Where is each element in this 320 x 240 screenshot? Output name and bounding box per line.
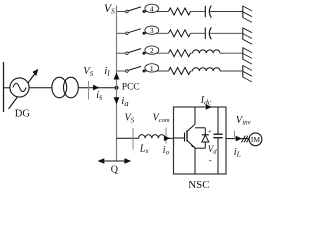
capacitor C4 bbox=[205, 6, 211, 18]
resistor R1 bbox=[169, 68, 191, 75]
switch S1 bbox=[126, 66, 146, 72]
svg-text:DG: DG bbox=[15, 109, 31, 120]
switch S4 bbox=[126, 7, 146, 13]
stiff source wall (feeder 3) bbox=[243, 28, 252, 45]
svg-text:Q: Q bbox=[111, 165, 119, 176]
measurement tick Vs bbox=[88, 81, 90, 100]
svg-text:is: is bbox=[96, 90, 102, 102]
measurement tick Vs (compensator) bbox=[132, 128, 134, 150]
inductor L2 bbox=[193, 50, 221, 53]
wire bbox=[191, 32, 206, 34]
measurement tick Vcom bbox=[165, 128, 167, 144]
arrow i_l (up) bbox=[114, 72, 120, 79]
wire (diode top jumper) bbox=[195, 127, 205, 129]
wire (emitter to bottom rail) bbox=[194, 148, 196, 174]
wire (gate lead) bbox=[174, 137, 185, 139]
wire bbox=[209, 11, 242, 13]
resistor R2 bbox=[169, 50, 191, 57]
transistor Q1 (IGBT) bbox=[185, 124, 196, 148]
wire (diode bottom jumper) bbox=[195, 147, 205, 149]
reactive power arrow Q bbox=[98, 158, 132, 164]
wire bbox=[29, 87, 52, 89]
switch S3 bbox=[126, 29, 146, 35]
wire feeder 3 bbox=[144, 32, 169, 34]
svg-text:+: + bbox=[208, 127, 212, 136]
node label 2 (circled) bbox=[145, 46, 159, 55]
wire bbox=[191, 52, 193, 54]
measurement tick Vinv bbox=[234, 131, 236, 140]
wire (cap top leg) bbox=[217, 107, 219, 134]
wire bbox=[191, 70, 193, 72]
wire bbox=[220, 70, 243, 72]
transformer T1 bbox=[52, 77, 78, 98]
inductor Ls bbox=[139, 135, 165, 139]
wire bbox=[4, 87, 11, 89]
DG source arrow (adjustable) bbox=[9, 69, 39, 109]
wire feeder 2 bbox=[144, 52, 169, 54]
wire bbox=[78, 87, 116, 89]
arrow i_o bbox=[164, 136, 170, 142]
wire bbox=[220, 52, 243, 54]
wire feeder 4 stub bbox=[117, 11, 125, 13]
arrow I_dc (on box top edge) bbox=[206, 104, 212, 110]
converter box NSC bbox=[174, 107, 227, 174]
resistor R3 bbox=[169, 30, 191, 37]
wire (PCC to Ls) bbox=[117, 137, 139, 139]
source wall bar (left) bbox=[3, 62, 5, 112]
svg-text:3: 3 bbox=[150, 26, 154, 35]
svg-text:1: 1 bbox=[150, 64, 154, 73]
arrow i_L bbox=[236, 136, 242, 142]
capacitor Cdc bbox=[213, 134, 222, 138]
svg-text:ia: ia bbox=[121, 95, 128, 108]
svg-text:NSC: NSC bbox=[188, 179, 209, 191]
three-phase slashes bbox=[242, 136, 251, 143]
svg-text:4: 4 bbox=[150, 4, 154, 13]
node label 1 (circled) bbox=[145, 64, 159, 73]
node label 4 (circled) bbox=[145, 4, 159, 13]
switch S2 bbox=[126, 49, 146, 55]
node label 3 (circled) bbox=[145, 26, 159, 35]
wire (cap bottom leg) bbox=[217, 138, 219, 174]
motor IM bbox=[249, 133, 262, 146]
diode D1 bbox=[202, 128, 209, 148]
wire feeder 2 stub bbox=[117, 52, 125, 54]
svg-text:iL: iL bbox=[234, 147, 241, 159]
inductor L1 bbox=[193, 68, 221, 71]
wire (output) bbox=[226, 138, 249, 140]
wire (collector to top rail) bbox=[194, 107, 196, 124]
svg-text:IM: IM bbox=[251, 135, 260, 144]
svg-text:2: 2 bbox=[150, 46, 154, 55]
arrow i_a (down) bbox=[114, 97, 120, 104]
arrow i_s bbox=[93, 85, 99, 91]
stiff source wall (feeder 4) bbox=[243, 6, 252, 23]
wire feeder 3 stub bbox=[117, 32, 125, 34]
resistor R4 bbox=[169, 8, 191, 15]
wire bbox=[191, 11, 206, 13]
svg-text:-: - bbox=[209, 155, 212, 165]
bus (vertical) bbox=[116, 6, 118, 162]
wire bbox=[209, 32, 242, 34]
svg-text:Ls: Ls bbox=[139, 144, 149, 156]
svg-text:PCC: PCC bbox=[122, 83, 140, 93]
wire feeder 4 bbox=[144, 11, 169, 13]
stiff source wall (feeder 1) bbox=[243, 65, 252, 82]
wire feeder 1 stub bbox=[117, 70, 125, 72]
wire bbox=[165, 137, 174, 139]
capacitor C3 bbox=[205, 27, 211, 39]
stiff source wall (feeder 2) bbox=[243, 47, 252, 64]
node PCC (junction dot) bbox=[115, 86, 119, 90]
wire feeder 1 bbox=[144, 70, 169, 72]
generator DG bbox=[10, 78, 29, 97]
